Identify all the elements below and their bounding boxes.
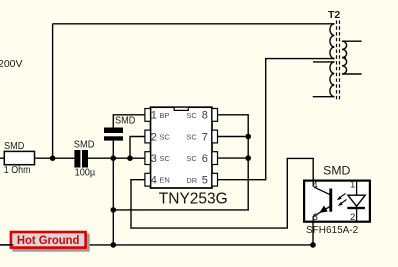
svg-text:3: 3: [151, 153, 157, 165]
svg-text:SC: SC: [186, 111, 197, 120]
svg-text:2: 2: [350, 212, 355, 223]
svg-text:SC: SC: [159, 154, 170, 163]
svg-text:SMD: SMD: [74, 140, 95, 151]
svg-text:2: 2: [151, 131, 157, 143]
svg-text:SMD: SMD: [115, 115, 135, 126]
svg-text:1: 1: [151, 110, 157, 122]
svg-text:4: 4: [312, 180, 317, 191]
svg-text:5: 5: [202, 175, 208, 187]
svg-text:SC: SC: [186, 154, 197, 163]
svg-text:6: 6: [202, 153, 208, 165]
svg-text:EN: EN: [159, 176, 169, 185]
svg-text:4: 4: [151, 175, 157, 187]
svg-text:Hot Ground: Hot Ground: [17, 233, 80, 247]
svg-text:100µ: 100µ: [75, 167, 96, 178]
svg-text:200V: 200V: [0, 58, 23, 70]
svg-text:7: 7: [202, 131, 208, 143]
svg-text:SFH615A-2: SFH615A-2: [306, 225, 359, 236]
svg-text:SC: SC: [159, 133, 170, 142]
svg-text:SC: SC: [186, 133, 197, 142]
svg-text:BP: BP: [159, 111, 169, 120]
svg-text:T2: T2: [328, 9, 340, 21]
svg-text:SMD: SMD: [323, 163, 351, 177]
svg-text:1: 1: [350, 180, 355, 191]
svg-text:1 Ohm: 1 Ohm: [4, 165, 31, 176]
svg-text:DR: DR: [186, 176, 197, 185]
svg-text:3: 3: [313, 212, 318, 223]
svg-text:8: 8: [202, 110, 208, 122]
svg-text:SMD: SMD: [4, 141, 24, 152]
svg-text:TNY253G: TNY253G: [159, 191, 228, 208]
